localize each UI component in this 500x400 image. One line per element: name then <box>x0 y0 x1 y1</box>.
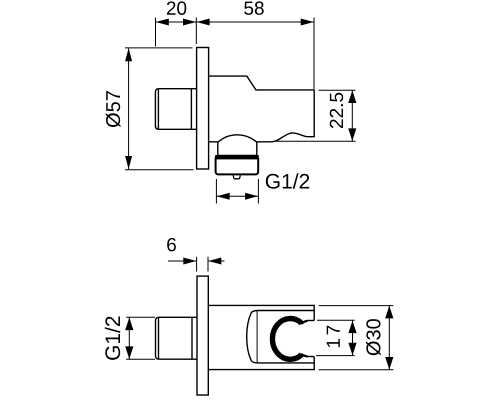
dim 6 extension left <box>196 257 198 272</box>
dim 22.5 dim line <box>351 90 353 141</box>
dim Ø30 extension bottom <box>319 369 394 371</box>
label 58 <box>244 1 264 15</box>
Ø57 extension bottom <box>125 169 194 171</box>
dim 17 extension bottom <box>316 355 355 357</box>
arrow G1/2 bottom <box>125 346 133 359</box>
label 20 <box>167 1 186 15</box>
outlet G1/2 extension right <box>257 179 259 204</box>
dim 20 extension line left <box>155 18 157 47</box>
holder bore bottom line <box>307 356 315 358</box>
Ø57 dim line <box>128 48 130 169</box>
arrow 22.5 bottom <box>348 128 356 141</box>
outlet nub <box>233 175 240 178</box>
label G12top <box>266 173 309 188</box>
wall plate (top view) <box>197 48 209 170</box>
arrow Ø57 top <box>125 48 132 61</box>
dim line 20 <box>156 21 197 23</box>
holder cup face edge line <box>256 311 258 362</box>
body outline (top view) <box>209 76 315 142</box>
arrow Ø30 top <box>385 306 393 319</box>
thread relief line left <box>157 89 159 129</box>
label O30 <box>366 319 381 355</box>
arrow Ø57 bottom <box>125 156 132 169</box>
label G12front <box>105 317 120 360</box>
label 17 <box>327 326 340 347</box>
dim 22.5 extension bottom <box>276 140 356 142</box>
arrow 6 left (pointing right) <box>183 258 196 265</box>
dim 58 extension line right <box>313 18 315 90</box>
dim 17 extension top <box>317 319 355 321</box>
arrow 20 right <box>183 19 196 26</box>
arrow 20 left <box>156 19 169 26</box>
threaded inlet connector (front view) <box>156 317 198 359</box>
arrow 17 top <box>348 321 356 334</box>
outlet dim line <box>216 195 258 197</box>
arrow 58 left <box>197 19 210 26</box>
dim line 58 <box>196 21 314 23</box>
Ø57 extension top <box>125 47 193 49</box>
dim 22.5 extension top <box>319 89 356 91</box>
dim Ø30 extension top <box>319 305 394 307</box>
G1/2 dim line (front) <box>128 317 130 359</box>
G1/2 extension top (front) <box>126 316 155 318</box>
holder C-ring (thick) <box>272 319 307 360</box>
arrow 22.5 top <box>348 90 356 103</box>
label 22.5 <box>330 93 344 128</box>
G1/2 extension bottom (front) <box>126 358 155 360</box>
holder bore top line <box>307 320 315 322</box>
outlet nut flange (top view, thick) <box>216 156 259 175</box>
label 6 <box>167 238 176 252</box>
arrow 58 right <box>301 19 314 26</box>
label O57 <box>106 91 121 127</box>
arrow outlet left <box>217 193 230 200</box>
thread end line right <box>190 89 192 129</box>
thread end line right (front) <box>191 318 193 360</box>
dim 6 line right <box>208 260 225 262</box>
arrow G1/2 top <box>125 318 133 331</box>
dim 6 line left <box>168 260 197 262</box>
body rectangle (front view) <box>208 305 314 369</box>
dim Ø30 line <box>388 306 390 370</box>
arrow Ø30 bottom <box>385 357 393 370</box>
dim 20/58 shared extension line <box>195 18 197 45</box>
holder cup outline (front view) <box>247 311 315 363</box>
threaded inlet connector (top view) <box>155 89 196 130</box>
flange top band <box>215 155 258 159</box>
thread relief line left (front) <box>158 318 160 360</box>
arrow 17 bottom <box>348 343 356 356</box>
outlet dome (top view) <box>218 135 257 156</box>
dim 17 line <box>352 320 354 355</box>
dim 6 extension right <box>207 257 209 272</box>
outlet G1/2 extension left <box>215 179 217 204</box>
arrow 6 right (pointing left) <box>208 258 221 265</box>
arrow outlet right <box>245 193 258 200</box>
wall plate (front view) <box>197 276 208 395</box>
